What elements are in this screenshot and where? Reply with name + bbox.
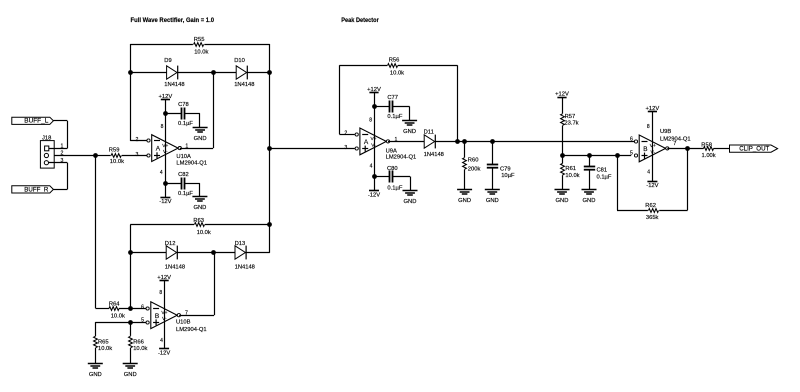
resistor R55 <box>194 43 204 47</box>
svg-text:R62: R62 <box>645 203 656 209</box>
svg-text:1: 1 <box>61 144 64 150</box>
svg-text:R58: R58 <box>701 142 712 148</box>
wire right vertical <box>269 44 271 253</box>
ground for R65 <box>88 363 103 365</box>
svg-text:D9: D9 <box>164 58 171 64</box>
svg-text:10.0k: 10.0k <box>110 159 124 165</box>
capacitor C80 <box>374 176 390 178</box>
op-amp U10A <box>152 135 178 162</box>
svg-text:7: 7 <box>673 141 676 147</box>
svg-text:0.1µF: 0.1µF <box>387 186 402 192</box>
svg-text:10.0k: 10.0k <box>197 230 211 236</box>
node U9A V- junction <box>372 174 377 179</box>
diode D11 <box>424 135 434 148</box>
capacitor C81 <box>589 155 591 166</box>
wire D11 cathode row <box>435 141 634 143</box>
svg-text:-12V: -12V <box>159 199 171 205</box>
svg-text:D12: D12 <box>165 241 176 247</box>
svg-text:0.1µF: 0.1µF <box>178 121 193 127</box>
svg-text:C78: C78 <box>178 102 189 108</box>
svg-text:B: B <box>643 146 647 153</box>
op-amp U9B <box>639 135 665 162</box>
wire U10A output up to diodes <box>180 148 213 150</box>
wire U9A power vertical <box>374 92 376 190</box>
wire pin5 row of U9B <box>562 155 631 157</box>
svg-text:C81: C81 <box>597 168 608 174</box>
resistor R62 feedback loop <box>687 148 689 210</box>
node R62 return <box>615 153 620 158</box>
wire diode row 1 <box>130 72 166 74</box>
resistor R59 <box>96 155 111 157</box>
svg-text:U9B: U9B <box>660 129 671 135</box>
svg-text:R60: R60 <box>468 158 479 164</box>
svg-text:V-: V- <box>651 149 656 155</box>
svg-text:R66: R66 <box>133 339 144 345</box>
svg-text:R57: R57 <box>565 114 576 120</box>
resistor R66 <box>130 322 132 336</box>
svg-text:Full Wave Rectifier, Gain = 1.: Full Wave Rectifier, Gain = 1.0 <box>131 17 215 24</box>
svg-text:1N4148: 1N4148 <box>164 82 184 88</box>
ground for C81 <box>582 189 597 191</box>
svg-text:23.7k: 23.7k <box>564 121 578 127</box>
ground for C79 <box>485 189 500 191</box>
node U10A V+ junction <box>163 111 168 116</box>
svg-text:1.00k: 1.00k <box>702 153 716 159</box>
svg-text:10.0k: 10.0k <box>133 346 147 352</box>
svg-text:1N4148: 1N4148 <box>234 82 254 88</box>
svg-text:3: 3 <box>136 152 139 158</box>
wire pin5 row of U10B <box>95 322 146 324</box>
wire R56 feedback row <box>339 65 387 67</box>
resistor R56 <box>388 64 398 68</box>
svg-text:J18: J18 <box>42 135 51 141</box>
node C81 top <box>587 153 592 158</box>
svg-text:R55: R55 <box>194 37 205 43</box>
svg-text:4: 4 <box>160 338 163 344</box>
power -12V for U10A <box>160 197 170 199</box>
svg-text:8: 8 <box>369 117 372 123</box>
diode D13 <box>235 246 245 259</box>
svg-text:C82: C82 <box>178 172 189 178</box>
svg-text:0.1µF: 0.1µF <box>178 191 193 197</box>
ground for C78 <box>193 127 208 129</box>
svg-text:V+: V+ <box>370 136 376 142</box>
svg-text:5: 5 <box>630 151 633 157</box>
svg-text:-12V: -12V <box>368 192 380 198</box>
wire U10B output up to diodes <box>179 315 214 317</box>
capacitor C78 <box>165 113 181 115</box>
svg-text:V+: V+ <box>161 310 167 316</box>
svg-text:3: 3 <box>344 145 347 151</box>
resistor R65 <box>94 336 98 348</box>
svg-text:D13: D13 <box>235 241 246 247</box>
svg-text:3: 3 <box>61 158 64 164</box>
svg-text:V-: V- <box>371 142 376 148</box>
node D12 anode <box>128 250 133 255</box>
capacitor C79 <box>492 141 494 164</box>
svg-text:GND: GND <box>89 372 102 378</box>
svg-text:8: 8 <box>161 124 164 130</box>
wire input node down to R64 <box>95 155 97 308</box>
wire pin5 left elbow <box>95 322 97 336</box>
ground for C77 <box>402 120 417 122</box>
net flag BUFF_R <box>12 186 54 193</box>
wire R63 row <box>130 224 194 226</box>
op-amp U9A <box>360 128 386 155</box>
node D10 cathode <box>267 70 272 75</box>
power -12V for U9A <box>369 190 379 192</box>
resistor R63 <box>195 223 205 227</box>
svg-text:-12V: -12V <box>646 183 658 189</box>
svg-text:C77: C77 <box>387 95 398 101</box>
svg-text:LM2904-Q1: LM2904-Q1 <box>176 161 207 167</box>
wire to U9A pin3 <box>270 148 355 150</box>
resistor R64 <box>96 308 110 310</box>
power -12V for U10B <box>159 348 169 350</box>
svg-text:B: B <box>155 313 159 320</box>
svg-text:V-: V- <box>162 316 167 322</box>
svg-text:V+: V+ <box>162 143 168 149</box>
svg-text:GND: GND <box>193 205 206 211</box>
ground for R60 <box>457 189 472 191</box>
svg-text:1N4148: 1N4148 <box>165 264 185 270</box>
resistor R60 <box>464 141 466 157</box>
svg-text:10.0k: 10.0k <box>98 346 112 352</box>
resistor R57 <box>562 97 564 114</box>
svg-text:Peak Detector: Peak Detector <box>341 17 379 24</box>
node input junction <box>93 153 98 158</box>
wire BUFF_R to J18 pin3 <box>53 189 67 191</box>
svg-text:R61: R61 <box>565 166 576 172</box>
svg-text:GND: GND <box>403 129 416 135</box>
svg-text:CLIP_OUT: CLIP_OUT <box>739 146 769 153</box>
svg-text:10.0k: 10.0k <box>111 313 125 319</box>
svg-text:V+: V+ <box>650 143 656 149</box>
svg-text:10µF: 10µF <box>501 173 515 179</box>
wire left vertical to U10A pin2 <box>130 44 132 141</box>
net flag BUFF_L <box>12 117 54 124</box>
wire top feedback row <box>130 44 193 46</box>
net flag CLIP_OUT <box>730 145 778 152</box>
svg-text:5: 5 <box>141 318 144 324</box>
wire U9A output to D11 <box>388 141 424 143</box>
ground for C80 <box>403 190 418 192</box>
wire BUFF_L to J18 pin1 <box>53 120 67 122</box>
svg-text:200k: 200k <box>468 167 481 173</box>
svg-text:V-: V- <box>163 149 168 155</box>
svg-text:R64: R64 <box>109 302 120 308</box>
node R63 right <box>267 222 272 227</box>
ground for R66 <box>123 363 138 365</box>
svg-text:LM2904-Q1: LM2904-Q1 <box>386 155 417 161</box>
svg-text:10.0k: 10.0k <box>194 49 208 55</box>
diode D10 <box>236 66 246 79</box>
node R61 top <box>560 153 565 158</box>
svg-text:2: 2 <box>344 131 347 137</box>
ground for R61 <box>555 189 570 191</box>
svg-text:8: 8 <box>159 290 162 296</box>
svg-text:R59: R59 <box>109 148 120 154</box>
svg-text:GND: GND <box>583 198 596 204</box>
op-amp U10B <box>151 302 177 329</box>
svg-text:C79: C79 <box>500 166 511 172</box>
wire R56 right vertical <box>457 65 459 141</box>
svg-text:6: 6 <box>630 137 633 143</box>
node D9-D10 junction <box>211 70 216 75</box>
wire U10A power vertical <box>165 99 167 197</box>
svg-text:R63: R63 <box>193 218 204 224</box>
svg-text:D10: D10 <box>234 58 245 64</box>
wire left vertical lower <box>130 225 132 309</box>
node U10A V- junction <box>163 181 168 186</box>
svg-text:6: 6 <box>141 304 144 310</box>
svg-text:1N4148: 1N4148 <box>235 264 255 270</box>
resistor R58 <box>704 147 714 151</box>
svg-text:A: A <box>364 139 369 146</box>
wire J18 pin2 to node <box>54 155 95 157</box>
connector J18 <box>40 141 54 169</box>
svg-text:10.0k: 10.0k <box>565 173 579 179</box>
svg-text:C80: C80 <box>387 166 398 172</box>
svg-text:R65: R65 <box>98 339 109 345</box>
svg-text:0.1µF: 0.1µF <box>387 114 402 120</box>
svg-text:365k: 365k <box>646 215 659 221</box>
svg-text:GND: GND <box>124 372 137 378</box>
node R60 top <box>462 139 467 144</box>
svg-text:1N4148: 1N4148 <box>424 152 444 158</box>
capacitor C77 <box>374 106 390 108</box>
node U9A V+ junction <box>372 104 377 109</box>
node D12-D13 junction <box>211 250 216 255</box>
wire U10B power vertical <box>164 280 166 349</box>
wire U9B output <box>667 148 703 150</box>
node C79 top <box>490 139 495 144</box>
node D9 anode <box>128 70 133 75</box>
wire U9B power vertical <box>652 112 654 181</box>
svg-text:U9A: U9A <box>386 148 397 154</box>
svg-text:8: 8 <box>647 124 650 130</box>
svg-text:GND: GND <box>458 198 471 204</box>
svg-text:U10B: U10B <box>176 319 191 325</box>
svg-text:GND: GND <box>404 199 417 205</box>
wire R56 left vertical to pin2 <box>339 65 341 134</box>
svg-text:BUFF_R: BUFF_R <box>24 186 49 193</box>
svg-text:R56: R56 <box>389 57 400 63</box>
node output junction <box>685 146 690 151</box>
node R64 right <box>128 306 133 311</box>
svg-text:4: 4 <box>647 170 650 176</box>
capacitor C82 <box>165 183 181 185</box>
svg-text:D11: D11 <box>424 129 434 135</box>
wire diode row 2 <box>130 252 166 254</box>
svg-text:U10A: U10A <box>176 154 191 160</box>
diode D9 <box>167 66 177 79</box>
diode D12 <box>166 246 176 259</box>
svg-text:BUFF_L: BUFF_L <box>24 118 49 125</box>
node R66 top <box>128 320 133 325</box>
ground for C82 <box>192 196 207 198</box>
svg-text:GND: GND <box>194 136 207 142</box>
svg-text:0.1µF: 0.1µF <box>597 174 612 180</box>
svg-text:2: 2 <box>136 137 139 143</box>
svg-text:4: 4 <box>370 163 373 169</box>
svg-text:GND: GND <box>556 198 569 204</box>
svg-text:-12V: -12V <box>158 351 170 357</box>
power -12V for U9B <box>647 181 657 183</box>
node R56 return <box>455 139 460 144</box>
svg-text:LM2904-Q1: LM2904-Q1 <box>176 327 207 333</box>
svg-text:10.0k: 10.0k <box>390 71 404 77</box>
svg-text:GND: GND <box>486 198 499 204</box>
resistor R61 <box>562 155 564 163</box>
node pin3 branch <box>267 146 272 151</box>
svg-text:4: 4 <box>160 170 163 176</box>
svg-text:A: A <box>156 146 161 153</box>
